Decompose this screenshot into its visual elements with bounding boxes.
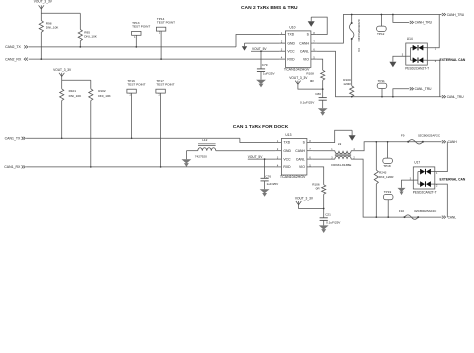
svg-text:R102: R102 (98, 89, 106, 93)
svg-text:CANH_TRU: CANH_TRU (447, 13, 465, 17)
svg-text:CANH: CANH (299, 41, 309, 45)
svg-text:TXD: TXD (287, 33, 294, 37)
svg-text:C21: C21 (325, 212, 331, 216)
svg-text:CAN1_TX: CAN1_TX (5, 137, 21, 141)
svg-text:0.1uF/25V: 0.1uF/25V (326, 221, 341, 225)
svg-text:VIO: VIO (303, 57, 309, 61)
svg-text:7427920: 7427920 (195, 154, 207, 158)
svg-text:TEST POINT: TEST POINT (156, 83, 174, 87)
svg-text:VOUT_5V: VOUT_5V (252, 47, 267, 51)
svg-text:GND: GND (287, 41, 295, 45)
svg-text:U13: U13 (285, 133, 291, 137)
svg-text:0ZCB0025AF2C: 0ZCB0025AF2C (418, 134, 441, 138)
svg-text:VOUT_3_3V: VOUT_3_3V (289, 76, 308, 80)
svg-text:U10: U10 (289, 26, 295, 30)
svg-text:VCC: VCC (287, 49, 295, 53)
svg-text:0ZCB0025AF2C: 0ZCB0025AF2C (414, 209, 437, 213)
svg-text:CANH: CANH (295, 149, 305, 153)
svg-text:EXTERNAL CAN: EXTERNAL CAN (440, 178, 466, 182)
svg-text:TP18: TP18 (383, 164, 391, 168)
svg-text:RXD: RXD (287, 57, 295, 61)
svg-text:120R: 120R (343, 82, 351, 86)
svg-text:1uF/25V: 1uF/25V (263, 71, 276, 75)
svg-text:VOUT_3_3V: VOUT_3_3V (34, 0, 53, 4)
svg-text:CANL_TRU: CANL_TRU (447, 95, 465, 99)
svg-text:F6: F6 (357, 48, 361, 52)
svg-text:VOUT_3_3V: VOUT_3_3V (295, 197, 314, 201)
svg-text:GND: GND (283, 149, 291, 153)
svg-text:RXD: RXD (283, 165, 291, 169)
svg-text:R101: R101 (69, 89, 77, 93)
svg-text:VOUT_3_3V: VOUT_3_3V (53, 68, 72, 72)
svg-text:U14: U14 (407, 37, 413, 41)
svg-text:U17: U17 (414, 161, 420, 165)
svg-text:L12: L12 (202, 138, 207, 142)
svg-text:R108: R108 (306, 71, 314, 75)
svg-text:DR331-813BE: DR331-813BE (331, 163, 351, 167)
svg-text:CANH_TRU: CANH_TRU (415, 21, 433, 25)
svg-text:CANL: CANL (300, 49, 309, 53)
svg-text:TEST POINT: TEST POINT (127, 83, 145, 87)
svg-text:CANL: CANL (296, 157, 305, 161)
svg-text:VIO: VIO (299, 165, 305, 169)
svg-text:EXTERNAL CAN: EXTERNAL CAN (440, 58, 466, 62)
svg-text:VOUT_5V: VOUT_5V (248, 155, 263, 159)
svg-text:DNI_10K: DNI_10K (98, 94, 111, 98)
svg-text:DNI_10K: DNI_10K (84, 34, 97, 38)
svg-text:CAN 2 TxRx BMS & TRU: CAN 2 TxRx BMS & TRU (241, 5, 298, 11)
svg-text:CAN1_RX: CAN1_RX (4, 165, 21, 169)
svg-text:TCAN1042HGV: TCAN1042HGV (280, 175, 306, 179)
svg-text:0ZCB0025AF2C: 0ZCB0025AF2C (357, 19, 361, 42)
svg-text:TEST POINT: TEST POINT (132, 25, 150, 29)
svg-text:DNI_10K: DNI_10K (69, 94, 82, 98)
svg-text:F10: F10 (399, 209, 405, 213)
svg-text:C76: C76 (265, 175, 271, 179)
svg-text:C79: C79 (262, 63, 268, 67)
svg-text:C80: C80 (315, 92, 321, 96)
svg-text:TP19: TP19 (384, 190, 392, 194)
svg-text:CANH: CANH (448, 140, 458, 144)
svg-text:PESD2CAN2T-T: PESD2CAN2T-T (405, 67, 429, 71)
svg-text:DNI_120R: DNI_120R (379, 175, 394, 179)
svg-text:CAN 1 TxRx FOR DOCK: CAN 1 TxRx FOR DOCK (233, 124, 289, 130)
svg-text:DNI_10K: DNI_10K (46, 25, 59, 29)
svg-text:TXD: TXD (283, 141, 290, 145)
svg-text:PESD2CAN2T-T: PESD2CAN2T-T (413, 190, 437, 194)
svg-text:TP11: TP11 (378, 79, 385, 83)
svg-text:CANL: CANL (448, 215, 457, 219)
svg-text:CAN2_TX: CAN2_TX (5, 45, 21, 49)
svg-text:CAN2_RX: CAN2_RX (5, 57, 22, 61)
svg-text:F9: F9 (401, 134, 405, 138)
svg-text:TP12: TP12 (377, 32, 385, 36)
svg-text:1uF/25V: 1uF/25V (267, 182, 280, 186)
svg-text:VCC: VCC (283, 157, 291, 161)
svg-text:L9: L9 (338, 142, 342, 146)
svg-text:CANL_TRU: CANL_TRU (415, 87, 433, 91)
svg-text:0.1uF/25V: 0.1uF/25V (300, 100, 315, 104)
svg-text:TEST POINT: TEST POINT (157, 21, 175, 25)
